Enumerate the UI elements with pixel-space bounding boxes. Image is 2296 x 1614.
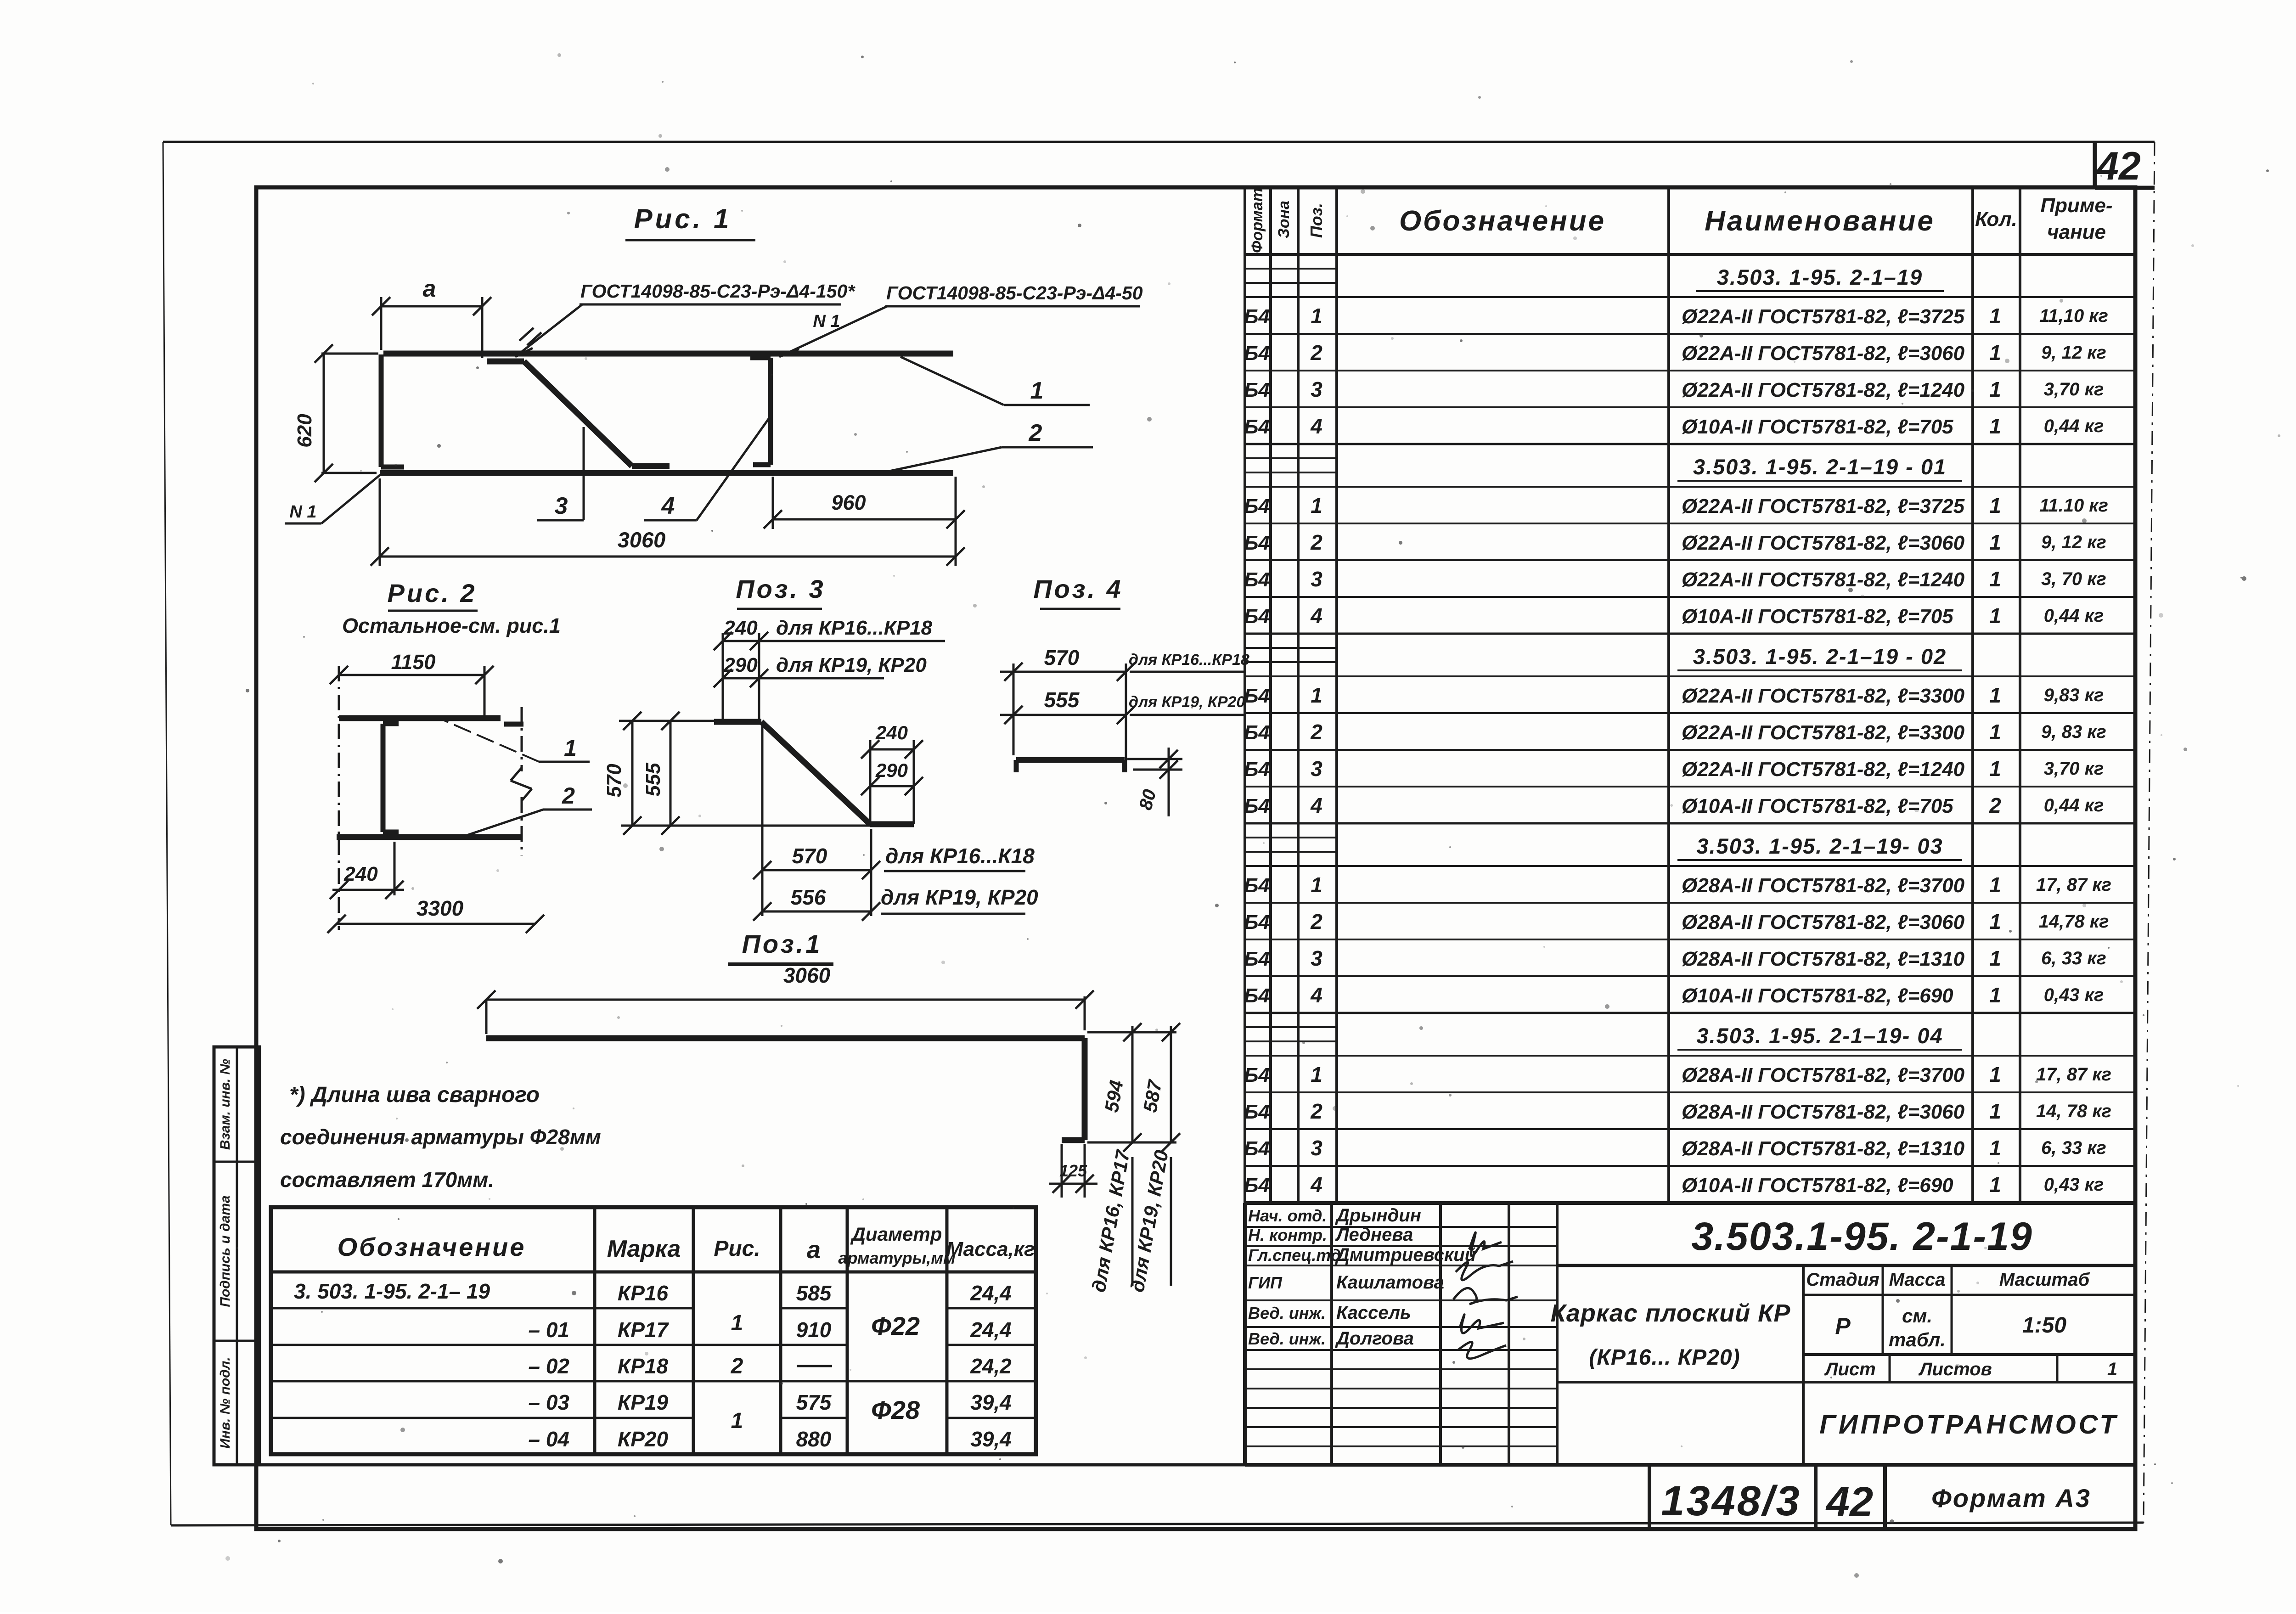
- svg-text:Стадия: Стадия: [1806, 1270, 1879, 1290]
- fig2 dim 3300: [327, 896, 544, 933]
- svg-text:1: 1: [1989, 341, 2001, 365]
- pos4 dim 555: [1000, 688, 1245, 724]
- svg-text:1: 1: [1989, 720, 2001, 744]
- svg-text:для КР16...КР18: для КР16...КР18: [1129, 651, 1249, 669]
- pos1 title: [728, 929, 833, 987]
- fig1 bottom bar (rod 2): [380, 470, 953, 476]
- svg-text:Ø22А-II ГОСТ5781-82, ℓ=1240: Ø22А-II ГОСТ5781-82, ℓ=1240: [1682, 758, 1965, 781]
- pos4 rod: [1016, 760, 1125, 772]
- svg-text:Ø22А-II ГОСТ5781-82, ℓ=3725: Ø22А-II ГОСТ5781-82, ℓ=3725: [1682, 495, 1965, 517]
- svg-text:Формат А3: Формат А3: [1931, 1484, 2091, 1513]
- svg-text:3.503.1-95. 2-1-19: 3.503.1-95. 2-1-19: [1691, 1215, 2033, 1259]
- svg-text:ГИПРОТРАНСМОСТ: ГИПРОТРАНСМОСТ: [1819, 1410, 2118, 1440]
- svg-text:для КР16...КР18: для КР16...КР18: [776, 617, 933, 639]
- svg-text:1150: 1150: [391, 650, 436, 674]
- svg-text:1: 1: [1989, 567, 2001, 591]
- fig2 leader 2: [461, 783, 592, 837]
- svg-text:3300: 3300: [416, 896, 464, 920]
- list row: [1803, 1355, 2135, 1382]
- svg-text:4: 4: [1310, 1173, 1322, 1197]
- svg-text:КР16: КР16: [618, 1281, 669, 1305]
- svg-text:Наименование: Наименование: [1705, 205, 1935, 237]
- svg-text:3: 3: [1311, 377, 1322, 401]
- svg-text:Ø22А-II ГОСТ5781-82, ℓ=3300: Ø22А-II ГОСТ5781-82, ℓ=3300: [1682, 685, 1965, 707]
- svg-text:1: 1: [1989, 1063, 2001, 1086]
- fig2 end rod bracket: [383, 724, 399, 832]
- svg-text:3: 3: [1311, 946, 1322, 970]
- svg-text:Ø10А-II ГОСТ5781-82, ℓ=705: Ø10А-II ГОСТ5781-82, ℓ=705: [1682, 795, 1953, 817]
- fig2 leader 1: [443, 720, 590, 762]
- svg-text:17, 87 кг: 17, 87 кг: [2036, 1064, 2111, 1085]
- svg-text:Б4: Б4: [1244, 532, 1270, 554]
- fig2 subtitle: [342, 614, 561, 637]
- signature table: [1245, 1203, 1557, 1465]
- svg-text:Н. контр.: Н. контр.: [1248, 1226, 1327, 1244]
- spec row g2.2: [1244, 523, 2135, 554]
- svg-text:3: 3: [1311, 757, 1322, 781]
- svg-text:Б4: Б4: [1244, 1174, 1270, 1197]
- svg-text:Кол.: Кол.: [1975, 208, 2017, 231]
- fig2 top bar (rod 1): [339, 718, 523, 724]
- svg-text:КР17: КР17: [618, 1318, 670, 1342]
- spec row g4.2: [1244, 903, 2135, 934]
- pos3 extension lines top: [723, 633, 759, 722]
- svg-text:4: 4: [661, 493, 675, 519]
- svg-text:Б4: Б4: [1244, 568, 1270, 591]
- svg-text:Б4: Б4: [1244, 911, 1270, 934]
- svg-text:Поз.1: Поз.1: [742, 929, 822, 958]
- svg-text:Остальное-см. рис.1: Остальное-см. рис.1: [342, 614, 561, 637]
- svg-text:1: 1: [1311, 304, 1322, 328]
- svg-text:1: 1: [1989, 910, 2001, 934]
- svg-text:Дмитриевский: Дмитриевский: [1335, 1245, 1476, 1265]
- svg-text:570: 570: [1044, 646, 1080, 669]
- svg-text:Масса: Масса: [1889, 1270, 1946, 1290]
- svg-text:Поз. 4: Поз. 4: [1033, 574, 1123, 603]
- spec row g1.2: [1244, 334, 2135, 365]
- svg-text:Марка: Марка: [607, 1236, 681, 1262]
- svg-text:1: 1: [1989, 873, 2001, 897]
- svg-text:4: 4: [1310, 414, 1322, 438]
- svg-text:Р: Р: [1835, 1313, 1851, 1339]
- spec row g2.1: [1244, 487, 2135, 517]
- fig1 weld label GOST...150: [515, 281, 855, 357]
- svg-text:9, 83 кг: 9, 83 кг: [2041, 722, 2106, 742]
- svg-text:3. 503. 1-95. 2-1– 19: 3. 503. 1-95. 2-1– 19: [294, 1279, 490, 1303]
- svg-text:1: 1: [731, 1311, 743, 1335]
- spec row g3.4: [1244, 787, 2135, 817]
- svg-text:570: 570: [792, 844, 827, 868]
- svg-text:1: 1: [1311, 1063, 1322, 1086]
- svg-text:2: 2: [1029, 420, 1042, 446]
- main frame: [256, 187, 2135, 1529]
- svg-text:240: 240: [875, 722, 908, 743]
- fig1 leader 2: [889, 420, 1093, 471]
- svg-text:Рис. 1: Рис. 1: [634, 203, 732, 234]
- fig1 dim 3060: [371, 478, 965, 566]
- svg-text:Листов: Листов: [1918, 1359, 1992, 1379]
- svg-text:составляет 170мм.: составляет 170мм.: [280, 1168, 494, 1192]
- fig2 dim 240: [330, 842, 404, 899]
- svg-text:9,83 кг: 9,83 кг: [2044, 685, 2104, 705]
- svg-text:Поз.: Поз.: [1307, 203, 1326, 238]
- svg-text:42: 42: [2096, 144, 2141, 188]
- svg-text:2: 2: [1310, 341, 1322, 365]
- svg-text:1: 1: [1989, 530, 2001, 554]
- fig1 left end rod (pos 4): [381, 354, 404, 467]
- svg-text:4: 4: [1310, 604, 1322, 628]
- pos3 bottom dim 556: [753, 885, 1038, 921]
- svg-text:соединения арматуры Ф28мм: соединения арматуры Ф28мм: [280, 1125, 601, 1149]
- spec group 3 title 3.503. 1-95. 2-1–19 - 02: [1245, 634, 2135, 670]
- svg-text:1: 1: [1989, 604, 2001, 628]
- spec row g5.3: [1244, 1129, 2135, 1160]
- svg-text:1: 1: [1989, 757, 2001, 781]
- pos1 labels for KR16 KR17: [1087, 1148, 1134, 1294]
- fig2 title: [388, 579, 478, 611]
- svg-text:Диаметр: Диаметр: [850, 1223, 942, 1245]
- fig2 dim 1150: [330, 650, 494, 930]
- svg-text:575: 575: [796, 1390, 832, 1414]
- pos1 labels for KR19 KR20: [1126, 1148, 1172, 1293]
- svg-text:39,4: 39,4: [970, 1427, 1012, 1451]
- svg-text:для КР19, КР20: для КР19, КР20: [776, 654, 927, 676]
- marka table rows: [294, 1279, 1012, 1451]
- spec row g4.4: [1244, 976, 2135, 1007]
- svg-text:Б4: Б4: [1244, 495, 1270, 517]
- svg-text:КР18: КР18: [618, 1354, 669, 1378]
- fig1 dim 960: [764, 477, 965, 529]
- svg-text:Ø22А-II ГОСТ5781-82, ℓ=3060: Ø22А-II ГОСТ5781-82, ℓ=3060: [1682, 532, 1965, 554]
- svg-text:Ø22А-II ГОСТ5781-82, ℓ=3060: Ø22А-II ГОСТ5781-82, ℓ=3060: [1682, 342, 1965, 365]
- spec group 4 title 3.503. 1-95. 2-1–19- 03: [1245, 823, 2135, 860]
- svg-text:1: 1: [1989, 304, 2001, 328]
- spec row g4.3: [1244, 939, 2135, 970]
- svg-text:Лист: Лист: [1824, 1359, 1876, 1379]
- svg-text:Рис. 2: Рис. 2: [388, 579, 477, 607]
- svg-text:3: 3: [1311, 567, 1322, 591]
- svg-text:9, 12 кг: 9, 12 кг: [2041, 343, 2106, 363]
- svg-text:1: 1: [1311, 494, 1322, 517]
- svg-text:Б4: Б4: [1244, 605, 1270, 628]
- svg-text:Ø28А-II ГОСТ5781-82, ℓ=3060: Ø28А-II ГОСТ5781-82, ℓ=3060: [1682, 1101, 1965, 1123]
- spec group 2 title 3.503. 1-95. 2-1–19 - 01: [1245, 444, 2135, 481]
- svg-text:Инв. № подл.: Инв. № подл.: [218, 1357, 233, 1448]
- fig1 leader 3: [537, 427, 584, 520]
- svg-text:3.503. 1-95. 2-1–19- 03: 3.503. 1-95. 2-1–19- 03: [1696, 834, 1943, 858]
- pos3 dims 240/290 right: [861, 722, 923, 824]
- svg-text:Кассель: Кассель: [1336, 1303, 1411, 1323]
- svg-text:570: 570: [603, 764, 625, 798]
- svg-text:6, 33 кг: 6, 33 кг: [2041, 1138, 2106, 1158]
- svg-text:Зона: Зона: [1275, 201, 1293, 238]
- svg-text:3.503. 1-95. 2-1–19 - 02: 3.503. 1-95. 2-1–19 - 02: [1693, 644, 1947, 669]
- svg-text:240: 240: [343, 863, 378, 885]
- svg-text:11.10 кг: 11.10 кг: [2039, 495, 2108, 516]
- name box: [1551, 1265, 1803, 1465]
- svg-text:0,44 кг: 0,44 кг: [2044, 606, 2104, 626]
- spec row g5.1: [1244, 1056, 2135, 1086]
- fig1 leader 4: [644, 417, 770, 520]
- svg-text:1: 1: [1989, 683, 2001, 707]
- svg-text:3060: 3060: [618, 528, 666, 552]
- svg-text:Ø10А-II ГОСТ5781-82, ℓ=690: Ø10А-II ГОСТ5781-82, ℓ=690: [1682, 984, 1953, 1007]
- fig1 leader 1: [900, 357, 1090, 405]
- svg-text:125: 125: [1059, 1161, 1087, 1180]
- svg-text:2: 2: [562, 783, 575, 809]
- svg-text:Гл.спец.тд.: Гл.спец.тд.: [1248, 1246, 1345, 1265]
- svg-text:– 02: – 02: [528, 1354, 569, 1378]
- svg-text:a: a: [423, 276, 436, 302]
- svg-text:620: 620: [293, 414, 316, 448]
- svg-text:Нач. отд.: Нач. отд.: [1248, 1206, 1327, 1225]
- svg-text:Масса,кг: Масса,кг: [946, 1238, 1035, 1260]
- pos4 dim 80: [1127, 748, 1182, 816]
- pos3 dim 290 KR19-20: [714, 654, 927, 687]
- svg-text:Ø28А-II ГОСТ5781-82, ℓ=1310: Ø28А-II ГОСТ5781-82, ℓ=1310: [1682, 1137, 1965, 1160]
- fig1 title: [625, 203, 755, 240]
- svg-text:N 1: N 1: [813, 312, 840, 331]
- svg-text:3060: 3060: [783, 963, 831, 987]
- svg-text:Вед. инж.: Вед. инж.: [1248, 1304, 1326, 1322]
- svg-text:3.503. 1-95. 2-1–19- 04: 3.503. 1-95. 2-1–19- 04: [1696, 1024, 1943, 1048]
- svg-text:1: 1: [1311, 873, 1322, 897]
- svg-text:см.: см.: [1902, 1305, 1932, 1327]
- svg-text:ГИП: ГИП: [1248, 1273, 1283, 1292]
- svg-text:Рис.: Рис.: [714, 1237, 760, 1261]
- svg-text:0,44 кг: 0,44 кг: [2044, 416, 2104, 436]
- svg-text:КР20: КР20: [618, 1427, 669, 1451]
- svg-text:1: 1: [564, 735, 577, 761]
- svg-text:3.503. 1-95. 2-1–19 - 01: 3.503. 1-95. 2-1–19 - 01: [1693, 455, 1947, 479]
- svg-text:Формат: Формат: [1249, 188, 1266, 253]
- svg-text:Б4: Б4: [1244, 305, 1270, 328]
- svg-text:910: 910: [796, 1318, 832, 1342]
- svg-text:КР19: КР19: [618, 1390, 669, 1414]
- svg-text:24,4: 24,4: [970, 1318, 1012, 1342]
- svg-text:Долгова: Долгова: [1335, 1328, 1414, 1349]
- sheet number box 42 (top right): [2095, 142, 2155, 188]
- svg-text:Кашлатова: Кашлатова: [1336, 1272, 1444, 1293]
- svg-text:Ф28: Ф28: [871, 1395, 920, 1424]
- svg-text:N 1: N 1: [289, 502, 316, 522]
- svg-text:42: 42: [1825, 1479, 1873, 1525]
- spec table header: [1249, 188, 2113, 253]
- pos3 title: [736, 574, 825, 609]
- spec group 5 title 3.503. 1-95. 2-1–19- 04: [1245, 1013, 2135, 1050]
- svg-text:1: 1: [1311, 683, 1322, 707]
- svg-text:1: 1: [1989, 983, 2001, 1007]
- svg-text:6, 33 кг: 6, 33 кг: [2041, 948, 2106, 968]
- svg-text:960: 960: [831, 491, 866, 514]
- svg-text:Ø22А-II ГОСТ5781-82, ℓ=1240: Ø22А-II ГОСТ5781-82, ℓ=1240: [1682, 379, 1965, 401]
- svg-text:3.503. 1-95. 2-1–19: 3.503. 1-95. 2-1–19: [1717, 265, 1923, 289]
- left stamp strip: [214, 1047, 259, 1465]
- fig1 weld label GOST...50: [779, 282, 1143, 357]
- outer thin border: [163, 142, 2155, 1525]
- spec table grid: [1245, 187, 2135, 1203]
- svg-text:Б4: Б4: [1244, 984, 1270, 1007]
- signatures: [1453, 1232, 1518, 1359]
- svg-text:2: 2: [1310, 1099, 1322, 1123]
- svg-text:чание: чание: [2047, 221, 2106, 243]
- svg-text:Ø28А-II ГОСТ5781-82, ℓ=3700: Ø28А-II ГОСТ5781-82, ℓ=3700: [1682, 874, 1965, 897]
- spec row g5.4: [1244, 1166, 2135, 1197]
- svg-text:555: 555: [1044, 688, 1080, 712]
- stage/mass/scale: [1803, 1265, 2135, 1355]
- svg-text:Б4: Б4: [1244, 1101, 1270, 1123]
- svg-text:– 01: – 01: [528, 1318, 569, 1342]
- svg-text:3,70 кг: 3,70 кг: [2044, 379, 2104, 399]
- svg-text:Дрындин: Дрындин: [1335, 1205, 1421, 1226]
- svg-text:1: 1: [1030, 377, 1044, 404]
- svg-text:для КР19, КР20: для КР19, КР20: [881, 885, 1038, 909]
- marka table headers: [338, 1223, 1035, 1267]
- svg-text:Ф22: Ф22: [871, 1311, 920, 1340]
- svg-text:Ø10А-II ГОСТ5781-82, ℓ=705: Ø10А-II ГОСТ5781-82, ℓ=705: [1682, 605, 1953, 628]
- svg-text:Б4: Б4: [1244, 721, 1270, 744]
- svg-text:3,70 кг: 3,70 кг: [2044, 759, 2104, 779]
- footnote text: [280, 1083, 601, 1192]
- fig1 top bar (rod 1): [383, 351, 953, 357]
- spec row g1.1: [1244, 297, 2135, 328]
- fig1 dim a: [372, 276, 491, 358]
- spec row g3.3: [1244, 750, 2135, 781]
- spec row g3.1: [1244, 676, 2135, 707]
- svg-text:1: 1: [1989, 946, 2001, 970]
- spec row g4.1: [1244, 866, 2135, 897]
- svg-text:1: 1: [2107, 1359, 2117, 1379]
- pos1 dim line 3060: [477, 990, 1094, 1034]
- fig1 diagonal rod (pos 3): [487, 361, 670, 466]
- svg-text:для КР16...К18: для КР16...К18: [885, 844, 1035, 868]
- spec row g1.4: [1244, 407, 2135, 438]
- svg-text:Взам. инв. №: Взам. инв. №: [218, 1059, 233, 1150]
- fig1 dim 620: [293, 344, 378, 482]
- svg-text:1: 1: [1989, 1136, 2001, 1160]
- svg-text:290: 290: [875, 759, 908, 781]
- svg-text:1: 1: [1989, 377, 2001, 401]
- svg-text:4: 4: [1310, 983, 1322, 1007]
- svg-text:11,10 кг: 11,10 кг: [2039, 306, 2108, 326]
- fig2 break line: [511, 707, 532, 855]
- svg-text:*) Длина шва сварного: *) Длина шва сварного: [289, 1083, 540, 1107]
- svg-text:1: 1: [1989, 414, 2001, 438]
- svg-text:1: 1: [1989, 1173, 2001, 1197]
- marka table grid: [271, 1207, 1036, 1454]
- svg-text:Приме-: Приме-: [2040, 194, 2112, 217]
- svg-text:1348/3: 1348/3: [1661, 1478, 1801, 1524]
- svg-text:2: 2: [731, 1354, 743, 1378]
- svg-text:24,2: 24,2: [970, 1354, 1012, 1378]
- svg-text:Ø22А-II ГОСТ5781-82, ℓ=3300: Ø22А-II ГОСТ5781-82, ℓ=3300: [1682, 721, 1965, 744]
- org name: [1819, 1410, 2118, 1440]
- svg-text:Б4: Б4: [1244, 1137, 1270, 1160]
- svg-text:Б4: Б4: [1244, 874, 1270, 897]
- spec row g2.3: [1244, 560, 2135, 591]
- svg-text:Подпись и дата: Подпись и дата: [218, 1195, 233, 1307]
- svg-text:1: 1: [1989, 1099, 2001, 1123]
- svg-text:Каркас плоский КР: Каркас плоский КР: [1551, 1299, 1791, 1327]
- pos1 dims 594/587: [1087, 1023, 1180, 1152]
- svg-text:2: 2: [1310, 910, 1322, 934]
- svg-text:ГОСТ14098-85-С23-Рэ-Δ4-150*: ГОСТ14098-85-С23-Рэ-Δ4-150*: [580, 281, 855, 302]
- pos3 bottom dim 570: [753, 725, 1035, 916]
- fig2 bottom bar (rod 2): [337, 834, 521, 840]
- svg-text:2: 2: [1989, 793, 2001, 817]
- svg-text:табл.: табл.: [1889, 1329, 1946, 1350]
- svg-text:Масштаб: Масштаб: [1999, 1270, 2090, 1290]
- pos3 bent rod: [714, 722, 914, 824]
- spec row g2.4: [1244, 597, 2135, 628]
- svg-text:2: 2: [1310, 720, 1322, 744]
- svg-text:Леднева: Леднева: [1335, 1225, 1413, 1245]
- spec row g5.2: [1244, 1092, 2135, 1123]
- svg-text:556: 556: [791, 885, 826, 909]
- svg-text:Ø28А-II ГОСТ5781-82, ℓ=1310: Ø28А-II ГОСТ5781-82, ℓ=1310: [1682, 948, 1965, 970]
- svg-text:– 03: – 03: [528, 1390, 569, 1414]
- svg-text:1:50: 1:50: [2022, 1313, 2066, 1338]
- svg-text:1: 1: [731, 1409, 743, 1433]
- svg-text:24,4: 24,4: [970, 1281, 1012, 1305]
- svg-text:3: 3: [555, 493, 568, 519]
- svg-text:Б4: Б4: [1244, 795, 1270, 817]
- svg-text:Ø22А-II ГОСТ5781-82, ℓ=1240: Ø22А-II ГОСТ5781-82, ℓ=1240: [1682, 568, 1965, 591]
- svg-text:Б4: Б4: [1244, 685, 1270, 707]
- svg-text:Ø28А-II ГОСТ5781-82, ℓ=3060: Ø28А-II ГОСТ5781-82, ℓ=3060: [1682, 911, 1965, 934]
- svg-text:3, 70 кг: 3, 70 кг: [2041, 569, 2106, 589]
- svg-text:0,43 кг: 0,43 кг: [2044, 1175, 2104, 1195]
- pos3 dims 570/555 left: [603, 712, 870, 835]
- svg-text:Ø10А-II ГОСТ5781-82, ℓ=690: Ø10А-II ГОСТ5781-82, ℓ=690: [1682, 1174, 1953, 1197]
- svg-text:585: 585: [796, 1281, 832, 1305]
- svg-text:Б4: Б4: [1244, 379, 1270, 401]
- svg-text:– 04: – 04: [528, 1427, 569, 1451]
- svg-text:Обозначение: Обозначение: [338, 1232, 526, 1261]
- svg-text:14,78 кг: 14,78 кг: [2039, 911, 2109, 932]
- svg-text:555: 555: [642, 763, 664, 797]
- svg-text:2: 2: [1310, 530, 1322, 554]
- svg-text:1: 1: [1989, 494, 2001, 517]
- svg-text:Обозначение: Обозначение: [1399, 205, 1606, 237]
- pos4 title: [1033, 574, 1123, 609]
- svg-text:Б4: Б4: [1244, 416, 1270, 438]
- svg-text:арматуры,мм: арматуры,мм: [838, 1248, 955, 1267]
- svg-text:Ø28А-II ГОСТ5781-82, ℓ=3700: Ø28А-II ГОСТ5781-82, ℓ=3700: [1682, 1064, 1965, 1086]
- bottom strip boxes: [1649, 1465, 2091, 1529]
- svg-text:3: 3: [1311, 1136, 1322, 1160]
- svg-text:Б4: Б4: [1244, 948, 1270, 970]
- svg-text:(КР16... КР20): (КР16... КР20): [1589, 1345, 1740, 1370]
- svg-text:Вед. инж.: Вед. инж.: [1248, 1329, 1326, 1348]
- svg-text:Б4: Б4: [1244, 1064, 1270, 1086]
- spec row g1.3: [1244, 371, 2135, 401]
- svg-text:0,44 кг: 0,44 кг: [2044, 795, 2104, 815]
- svg-text:ГОСТ14098-85-С23-Рэ-Δ4-50: ГОСТ14098-85-С23-Рэ-Δ4-50: [886, 282, 1143, 304]
- fig1 weld mark N1 bottom left: [285, 475, 380, 523]
- spec group 1 title 3.503. 1-95. 2-1–19: [1245, 254, 2135, 291]
- svg-text:39,4: 39,4: [970, 1390, 1012, 1414]
- svg-text:Ø22А-II ГОСТ5781-82, ℓ=3725: Ø22А-II ГОСТ5781-82, ℓ=3725: [1682, 305, 1965, 328]
- svg-text:Б4: Б4: [1244, 758, 1270, 781]
- svg-text:a: a: [807, 1236, 821, 1264]
- svg-text:17, 87 кг: 17, 87 кг: [2036, 875, 2111, 895]
- svg-text:14, 78 кг: 14, 78 кг: [2036, 1101, 2111, 1121]
- svg-text:0,43 кг: 0,43 кг: [2044, 985, 2104, 1005]
- svg-text:Ø10А-II ГОСТ5781-82, ℓ=705: Ø10А-II ГОСТ5781-82, ℓ=705: [1682, 416, 1953, 438]
- fig1 right end rod (pos 4): [750, 358, 771, 465]
- pos1 rod L-shape: [486, 1038, 1085, 1140]
